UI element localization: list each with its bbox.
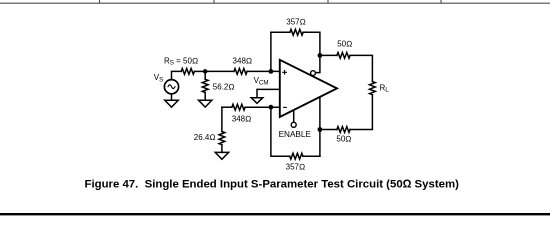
wire: node A to 348 top — [205, 70, 234, 72]
wire: VS top lead — [172, 71, 182, 79]
svg-text:50Ω: 50Ω — [337, 39, 352, 48]
wire: bottom rail left — [271, 107, 290, 156]
wire: top node down to OUT- — [316, 55, 320, 72]
wire: 56.2 ground lead — [204, 93, 206, 101]
op-amp plus sign — [282, 70, 287, 75]
resistor 56.2 — [202, 79, 208, 92]
wire: right rail bottom — [350, 95, 372, 130]
svg-text:Figure 47. Single Ended Input: Figure 47. Single Ended Input S-Paramete… — [84, 178, 459, 190]
svg-text:ENABLE: ENABLE — [279, 130, 312, 139]
pin circle OUT- — [311, 71, 316, 76]
ground (VCM) — [251, 98, 263, 104]
wire: RS to node A — [194, 70, 205, 72]
ground (26.4) — [215, 152, 228, 159]
resistor 26.4 — [219, 132, 225, 145]
wire: node A down — [204, 71, 206, 79]
wire: bottom rail right — [303, 155, 320, 157]
node -IN junction dot — [269, 105, 274, 110]
resistor 348 top — [234, 69, 247, 75]
svg-text:357Ω: 357Ω — [286, 17, 306, 26]
wire: +IN up to top rail — [270, 32, 272, 71]
wire: 26.4 branch down — [221, 107, 223, 131]
node OUT+ junction dot — [318, 127, 323, 132]
svg-text:50Ω: 50Ω — [336, 135, 351, 144]
svg-text:357Ω: 357Ω — [286, 163, 306, 172]
op-amp U1 — [280, 60, 337, 117]
wire: OUT+ vertical — [319, 97, 321, 156]
wire: top out to 50 — [320, 54, 337, 56]
svg-text:RS = 50Ω: RS = 50Ω — [164, 56, 198, 66]
wire: VS ground lead — [171, 94, 173, 101]
ground (VS) — [165, 100, 178, 107]
op-amp minus sign — [283, 106, 287, 108]
pin circle ENABLE — [291, 122, 296, 127]
table bottom rule — [0, 0, 550, 3]
wire: 26.4 ground lead — [221, 145, 223, 153]
footer rule — [0, 213, 550, 215]
wire: top rail right — [303, 32, 320, 55]
node +IN junction dot — [269, 69, 274, 74]
resistor 357 bottom — [290, 153, 303, 159]
wire: 50 bottom to node — [320, 129, 337, 131]
wire: 348 bottom to -IN — [245, 106, 280, 108]
resistor 50 bottom — [337, 127, 350, 133]
svg-text:56.2Ω: 56.2Ω — [213, 82, 235, 91]
svg-text:26.4Ω: 26.4Ω — [194, 133, 216, 142]
wire: VCM — [257, 89, 280, 97]
resistor 357 top — [290, 29, 303, 35]
source VS — [164, 80, 178, 94]
wire: -IN wire — [222, 106, 232, 108]
wire: 50 top to right rail — [350, 55, 372, 81]
svg-text:348Ω: 348Ω — [232, 114, 252, 123]
resistor RS — [181, 69, 194, 75]
wire: top rail left — [271, 31, 290, 33]
resistor 348 bottom — [232, 104, 245, 110]
resistor RL — [370, 82, 376, 95]
node A junction dot — [203, 69, 208, 74]
wire: ENABLE stub — [293, 110, 295, 123]
node OUT- junction dot — [318, 53, 323, 58]
resistor 50 top — [337, 53, 350, 59]
ground (56.2) — [199, 100, 212, 107]
svg-text:348Ω: 348Ω — [233, 56, 253, 65]
wire: 348 top to +IN — [247, 70, 280, 72]
